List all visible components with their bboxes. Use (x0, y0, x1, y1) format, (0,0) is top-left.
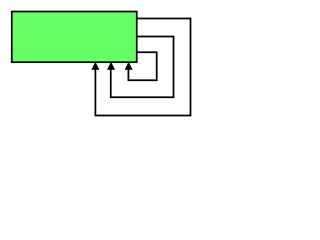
arrowhead into box bottom (outer loop) (91, 62, 99, 70)
wire outer feedback loop (95, 19, 190, 116)
arrowhead into box bottom (middle loop) (107, 62, 115, 70)
wire inner feedback loop (128, 52, 156, 80)
wire middle feedback loop (111, 37, 174, 98)
arrowhead into box bottom (inner loop) (125, 62, 133, 70)
green process box (12, 12, 137, 63)
